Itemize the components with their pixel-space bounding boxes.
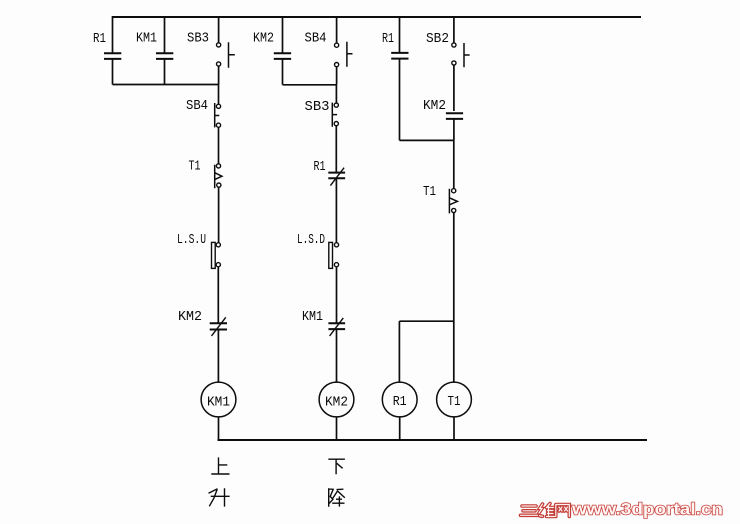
svg-text:T1: T1	[189, 159, 201, 175]
pushbutton SB4 (NC)	[215, 103, 221, 127]
watermark sanweiwang (3D portal)	[521, 504, 570, 517]
wire branch3 split tie	[399, 320, 453, 322]
delay contact T1 (branch3)	[449, 189, 457, 214]
svg-text:SB4: SB4	[186, 98, 208, 114]
coil KM1	[201, 382, 236, 417]
svg-text:L.S.U: L.S.U	[177, 232, 206, 248]
wire top supply rail	[112, 16, 641, 18]
limit switch L.S.U	[212, 242, 221, 268]
svg-text:KM1: KM1	[207, 395, 230, 411]
node label SHENG (rise)	[209, 488, 230, 506]
contact KM2 (NO, branch3)	[446, 113, 463, 119]
wire branch1 parallel tie	[113, 84, 219, 86]
svg-text:L.S.D: L.S.D	[297, 232, 325, 248]
coil T1	[437, 382, 472, 417]
contact KM2 (NO, branch2)	[274, 53, 291, 59]
pushbutton SB4 (NO, branch2)	[335, 42, 353, 67]
wire branch2 R1 to LSD	[335, 178, 337, 243]
svg-text:T1: T1	[423, 184, 436, 200]
wire branch2 SB4 leads	[336, 16, 338, 85]
wire branch2 down to SB3	[335, 85, 337, 103]
contact R1 (NC, branch2)	[328, 168, 345, 186]
svg-text:R1: R1	[393, 394, 407, 410]
wire branch2 KM1 to coil	[336, 329, 338, 382]
svg-text:SB3: SB3	[187, 31, 209, 47]
wire branch2 SB3 to R1	[335, 126, 337, 173]
node label SHANG (up)	[211, 457, 229, 474]
wire bottom supply rail	[218, 439, 648, 441]
contact KM2 (NC, branch1)	[210, 317, 227, 336]
svg-text:www.3dportal.cn: www.3dportal.cn	[571, 501, 723, 519]
wire branch2 KM2 leads	[282, 16, 284, 85]
contact KM1 (NO)	[156, 53, 173, 59]
wire branch1 SB3 leads	[218, 16, 220, 85]
wire branch1 KM1 leads	[164, 16, 166, 85]
wire branch3 T1 to coils	[453, 213, 455, 383]
svg-text:KM2: KM2	[253, 31, 274, 47]
wire branch3 R1 coil lead	[398, 321, 400, 382]
wire branch2 coil to bottom rail	[336, 417, 338, 440]
svg-text:R1: R1	[314, 159, 326, 175]
svg-text:KM2: KM2	[178, 309, 202, 325]
limit switch L.S.D	[329, 242, 339, 268]
svg-text:R1: R1	[93, 31, 106, 47]
pushbutton SB2 (NO)	[452, 43, 470, 67]
wire branch2 LSD to KM1	[336, 267, 338, 323]
svg-text:KM1: KM1	[136, 31, 157, 47]
pushbutton SB3 (NC, branch2)	[332, 103, 338, 127]
contact R1 (NO, branch3)	[391, 53, 408, 59]
pushbutton SB3 (NO)	[217, 42, 235, 68]
svg-text:SB3: SB3	[305, 99, 330, 115]
svg-text:KM1: KM1	[302, 309, 323, 325]
wire branch1 down to SB4	[218, 85, 220, 105]
wire branch3 SB2 leads	[453, 16, 455, 111]
contact KM1 (NC, branch2)	[328, 318, 345, 336]
wire branch3 down to T1	[453, 140, 455, 188]
wire branch1 coil to bottom rail	[218, 417, 220, 440]
delay contact T1 (branch1)	[215, 164, 222, 188]
wire T1 coil to bottom rail	[453, 417, 455, 440]
node label JIANG (descend)	[329, 488, 345, 507]
wire branch3 KM2 to tie	[453, 119, 455, 140]
wire branch3 R1 leads	[399, 16, 401, 140]
svg-text:KM2: KM2	[325, 395, 348, 411]
contact R1 (NO)	[104, 53, 121, 59]
wire branch1 R1 leads	[112, 16, 114, 85]
wire branch1 SB4 to T1	[218, 127, 220, 164]
wire branch1 T1 to LSU	[218, 187, 220, 243]
svg-text:T1: T1	[448, 394, 461, 410]
wire branch2 parallel tie	[283, 84, 337, 86]
svg-text:SB2: SB2	[426, 31, 449, 47]
node label XIA (down)	[328, 459, 345, 474]
wire branch3 tie R1/SB2	[400, 139, 454, 141]
coil KM2	[319, 382, 354, 417]
svg-text:SB4: SB4	[305, 31, 327, 47]
wire R1 coil to bottom rail	[399, 417, 401, 440]
coil R1	[382, 382, 417, 417]
wire branch1 LSU to KM2	[217, 267, 219, 323]
wire branch1 KM2 to coil	[217, 330, 219, 383]
svg-text:R1: R1	[382, 31, 394, 47]
svg-text:KM2: KM2	[423, 98, 446, 114]
